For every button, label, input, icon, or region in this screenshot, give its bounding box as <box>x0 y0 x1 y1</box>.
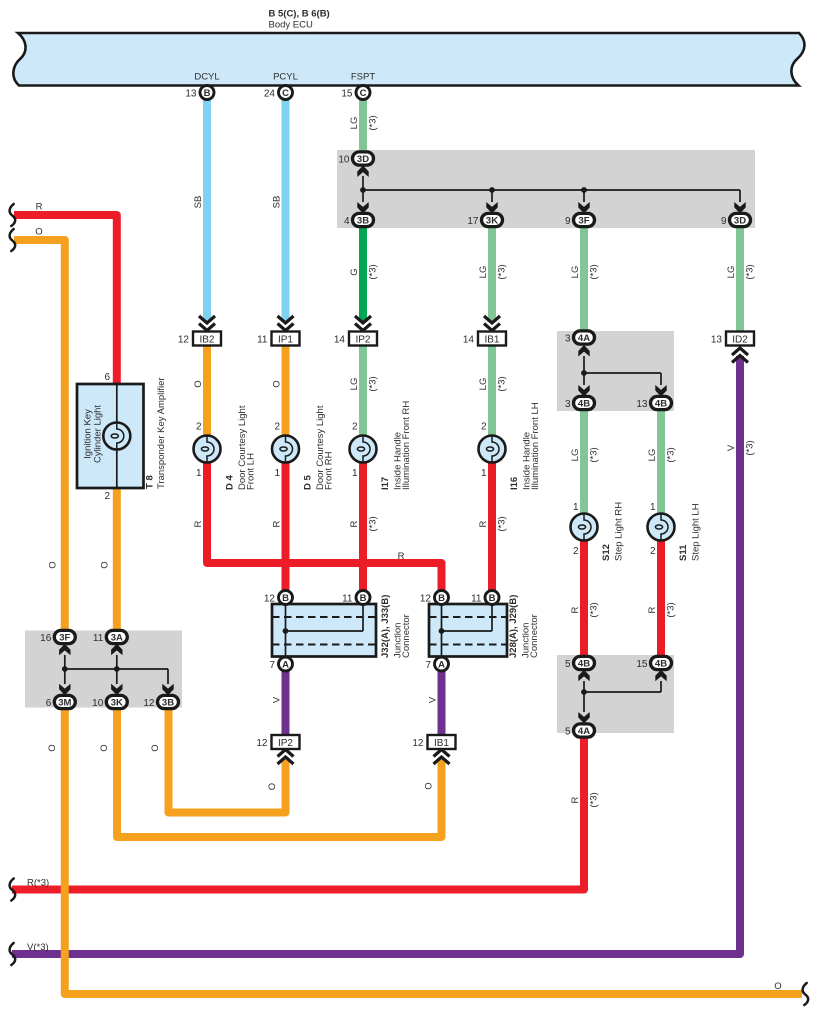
svg-text:12: 12 <box>412 738 424 749</box>
wire J32 internal 12B-7A <box>285 604 287 657</box>
svg-text:(*3): (*3) <box>368 264 379 279</box>
connector pin 15 4B <box>636 656 671 670</box>
svg-text:1: 1 <box>573 502 579 513</box>
svg-text:(*3): (*3) <box>497 516 508 531</box>
svg-text:LG: LG <box>349 378 360 391</box>
svg-text:2: 2 <box>650 546 656 557</box>
wire O T8 pin2 to 3A <box>113 488 121 631</box>
wire O 3K to IB1 lower <box>117 708 442 838</box>
svg-text:DCYL: DCYL <box>194 72 219 83</box>
wire LG IB1 to I16 <box>488 345 496 436</box>
svg-text:IB2: IB2 <box>199 334 214 345</box>
svg-text:1: 1 <box>650 502 656 513</box>
arrow into 9-3D <box>734 202 745 214</box>
svg-text:(*3): (*3) <box>589 447 600 462</box>
wire O feed to 3F <box>14 240 65 631</box>
svg-text:Step Light LH: Step Light LH <box>691 503 702 561</box>
svg-text:4A: 4A <box>578 333 590 344</box>
svg-text:O: O <box>48 561 59 568</box>
wire band2 vertical 4A <box>583 356 585 385</box>
wire J28 internal 11B drop <box>491 604 493 631</box>
svg-text:9: 9 <box>721 216 727 227</box>
svg-text:LG: LG <box>647 449 658 462</box>
svg-text:IP2: IP2 <box>355 334 370 345</box>
svg-text:4B: 4B <box>655 399 667 410</box>
svg-text:V: V <box>726 444 737 451</box>
svg-text:C: C <box>282 88 289 99</box>
svg-text:A: A <box>438 660 445 671</box>
wire band4 vertical 3A-3K <box>116 655 118 684</box>
arrow into IB1 lower <box>434 750 450 765</box>
svg-text:3A: 3A <box>111 633 123 644</box>
node band2 junction <box>581 370 587 376</box>
wire J28 internal 12B-7A <box>441 604 443 657</box>
svg-text:R: R <box>570 796 581 803</box>
svg-text:O: O <box>424 782 435 789</box>
node band3 junction <box>581 689 587 695</box>
wire O IB2 to D4 <box>203 345 211 436</box>
connector pin 10 3D <box>338 152 373 166</box>
svg-text:O: O <box>193 380 204 387</box>
wire R I17 to J32 11B <box>359 462 367 591</box>
arrow into 16-3F <box>59 644 70 656</box>
wire SB PCYL to IP1 <box>282 99 290 322</box>
junction connector J32/J33 box <box>272 604 376 657</box>
pin 24 C PCYL <box>264 86 293 100</box>
svg-text:(*3): (*3) <box>745 264 756 279</box>
connector pin 10 3K <box>92 695 127 709</box>
svg-text:11: 11 <box>257 335 268 346</box>
wire band3 riser 15-4B <box>660 681 662 692</box>
arrow into 4-3B <box>357 202 368 214</box>
svg-text:B: B <box>204 88 211 99</box>
svg-text:(*3): (*3) <box>589 602 600 617</box>
svg-text:B: B <box>438 593 445 604</box>
svg-text:C: C <box>360 88 367 99</box>
svg-text:R(*3): R(*3) <box>27 878 49 889</box>
wire band3 vertical 4B-4A <box>583 681 585 712</box>
svg-text:24: 24 <box>264 88 276 99</box>
svg-text:(*3): (*3) <box>497 264 508 279</box>
wire LG IP2 to I17 <box>359 345 367 436</box>
pin J28 7 A <box>425 657 448 671</box>
svg-text:(*3): (*3) <box>666 447 677 462</box>
arrow into 10-3D <box>357 166 368 178</box>
svg-text:(*3): (*3) <box>745 440 756 455</box>
svg-text:12: 12 <box>264 593 276 604</box>
svg-text:PCYL: PCYL <box>273 72 298 83</box>
svg-text:LG: LG <box>726 266 737 279</box>
svg-text:1: 1 <box>274 468 280 479</box>
node band1 junction A <box>360 187 366 193</box>
svg-text:Connector: Connector <box>529 614 540 658</box>
svg-text:D 4: D 4 <box>224 475 235 491</box>
svg-text:Illumination Front LH: Illumination Front LH <box>530 402 541 490</box>
wire break O feed <box>10 229 16 251</box>
wire R(*3) bottom run <box>12 737 584 890</box>
svg-text:Step Light RH: Step Light RH <box>614 502 625 561</box>
wire LG 3K to IB1 <box>488 226 496 322</box>
pin 13 B DCYL <box>185 86 214 100</box>
svg-text:4B: 4B <box>578 659 590 670</box>
wire band4 drop 3B <box>167 669 169 684</box>
svg-text:R: R <box>398 551 405 562</box>
wire R I16 to J28 11B <box>488 462 496 591</box>
connector 12 IB1 lower <box>412 735 455 749</box>
svg-text:1: 1 <box>352 468 358 479</box>
wire V(*3) ID2 bottom run <box>12 356 740 954</box>
svg-text:12: 12 <box>420 593 432 604</box>
connector pin 3 4B <box>565 396 595 410</box>
svg-text:FSPT: FSPT <box>351 72 375 83</box>
svg-text:Front LH: Front LH <box>245 453 256 490</box>
svg-text:3M: 3M <box>58 698 71 709</box>
svg-text:4B: 4B <box>655 659 667 670</box>
connector 13 ID2 <box>711 332 754 346</box>
svg-text:R: R <box>349 520 360 527</box>
svg-text:IP1: IP1 <box>278 334 293 345</box>
node band4 junction B <box>114 666 120 672</box>
connector 12 IB2 <box>178 332 221 346</box>
wire O 3M bottom run <box>65 708 802 995</box>
connector pin 16 3F <box>40 630 75 644</box>
svg-text:15: 15 <box>636 659 648 670</box>
svg-text:3: 3 <box>565 333 571 344</box>
svg-text:15: 15 <box>341 88 353 99</box>
svg-text:LG: LG <box>570 266 581 279</box>
svg-text:5: 5 <box>565 726 571 737</box>
connector 14 IP2 <box>334 332 377 346</box>
svg-text:V: V <box>272 696 283 703</box>
node band4 junction A <box>62 666 68 672</box>
svg-text:12: 12 <box>256 738 268 749</box>
svg-text:(*3): (*3) <box>368 376 379 391</box>
svg-text:G: G <box>349 268 360 275</box>
amplifier T8 box <box>77 384 144 488</box>
svg-text:SB: SB <box>193 196 204 209</box>
wire J32 internal 11B drop <box>362 604 364 631</box>
arrow into 5-4A <box>578 712 589 724</box>
svg-text:B 5(C), B 6(B): B 5(C), B 6(B) <box>269 9 330 20</box>
wire O 3B to IP2 lower <box>169 708 286 813</box>
svg-text:1: 1 <box>196 468 202 479</box>
svg-text:10: 10 <box>338 154 350 165</box>
svg-text:R: R <box>193 520 204 527</box>
svg-text:V(*3): V(*3) <box>27 942 49 953</box>
svg-text:10: 10 <box>92 698 104 709</box>
connector 14 IB1 <box>463 332 506 346</box>
wire R D5 to J32 12B <box>282 462 290 591</box>
arrow into 17-3K <box>486 202 497 214</box>
wire O IP1 to D5 <box>282 345 290 436</box>
svg-text:11: 11 <box>471 593 482 604</box>
svg-text:3D: 3D <box>734 216 746 227</box>
arrow into 9-3F <box>578 202 589 214</box>
svg-text:A: A <box>282 660 289 671</box>
svg-text:2: 2 <box>274 422 280 433</box>
svg-text:R: R <box>272 520 283 527</box>
svg-text:3B: 3B <box>357 216 369 227</box>
connector pin 12 3B <box>143 695 178 709</box>
connector 11 IP1 <box>257 332 299 346</box>
pin J28 11 B <box>471 591 499 605</box>
arrow into 3-4B <box>578 385 589 397</box>
svg-text:Body ECU: Body ECU <box>269 20 313 31</box>
pin 15 C FSPT <box>341 86 370 100</box>
svg-text:R: R <box>478 520 489 527</box>
node J32 internal junction <box>283 628 289 634</box>
svg-text:SB: SB <box>272 196 283 209</box>
svg-text:2: 2 <box>481 422 487 433</box>
wire V J28 7A to IB1 <box>438 664 446 735</box>
svg-text:6: 6 <box>46 698 52 709</box>
ECU B5/B6 Body ECU block <box>13 33 804 86</box>
connector 12 IP2 lower <box>256 735 299 749</box>
connector pin 6 3M <box>46 695 76 709</box>
svg-text:O: O <box>267 783 278 790</box>
connector pin 4 3B <box>344 213 374 227</box>
svg-text:13: 13 <box>185 88 197 99</box>
arrow into IB1 <box>484 316 500 331</box>
connector pin 17 3K <box>467 213 502 227</box>
svg-text:13: 13 <box>711 335 723 346</box>
arrow into 13-4B <box>655 385 666 397</box>
svg-text:3K: 3K <box>111 698 123 709</box>
svg-text:O: O <box>99 744 110 751</box>
svg-text:LG: LG <box>478 266 489 279</box>
shield band 3F/3A/3M/3K/3B <box>25 631 182 708</box>
svg-text:I16: I16 <box>509 477 520 490</box>
wire band1 drop 3F <box>583 190 585 202</box>
connector pin 3 4A <box>565 331 595 345</box>
svg-text:3K: 3K <box>486 216 498 227</box>
svg-text:14: 14 <box>463 335 475 346</box>
wire LG FSPT to 3D <box>359 99 367 153</box>
svg-text:(*3): (*3) <box>497 376 508 391</box>
svg-text:J32(A), J33(B): J32(A), J33(B) <box>380 595 391 658</box>
wire band3 horizontal <box>584 691 661 693</box>
wire break O out right <box>803 983 809 1005</box>
svg-text:(*3): (*3) <box>368 516 379 531</box>
wire band1 vertical at 3D <box>362 176 364 202</box>
svg-text:S12: S12 <box>601 544 612 561</box>
wire LG 3F to 4A <box>580 226 588 332</box>
svg-text:6: 6 <box>104 372 110 383</box>
arrow into 10-3K <box>111 684 122 696</box>
wire band1 drop 3D <box>739 190 741 202</box>
wire band2 drop 13-4B <box>660 373 662 385</box>
svg-text:7: 7 <box>425 660 431 671</box>
wire T8 internal <box>116 384 118 488</box>
shield band 3D/3B/3K/3F <box>337 150 755 228</box>
arrow into 15-4B <box>655 670 666 682</box>
svg-text:B: B <box>360 593 367 604</box>
svg-text:17: 17 <box>467 216 479 227</box>
connector pin 5 4B <box>565 656 595 670</box>
wire G 3B to IP2 <box>359 226 367 322</box>
connector pin 11 3A <box>93 630 127 644</box>
arrow into 3-4A <box>578 345 589 357</box>
wire R S12 to 5 4B <box>580 540 588 657</box>
svg-text:4: 4 <box>344 216 350 227</box>
arrow into IP2 <box>355 316 371 331</box>
svg-text:3F: 3F <box>578 216 589 227</box>
svg-text:R: R <box>570 606 581 613</box>
svg-text:O: O <box>774 981 781 992</box>
wire band4 horizontal <box>65 668 168 670</box>
svg-text:7: 7 <box>269 660 275 671</box>
lamp D4 door courtesy light front LH <box>194 436 221 463</box>
wire break V(*3) feed <box>10 943 16 965</box>
pin J32 12 B <box>264 591 293 605</box>
wire LG 3D to ID2 <box>736 226 744 332</box>
lamp D5 door courtesy light front RH <box>272 436 299 463</box>
svg-text:2: 2 <box>352 422 358 433</box>
arrow into 6-3M <box>59 684 70 696</box>
pin J28 12 B <box>420 591 449 605</box>
wire LG 4B to S11 <box>657 409 665 514</box>
arrow into IP1 <box>278 316 294 331</box>
connector pin 9 3D <box>721 213 751 227</box>
svg-text:9: 9 <box>565 216 571 227</box>
wire band2 horizontal <box>584 372 661 374</box>
connector pin 9 3F <box>565 213 595 227</box>
pin J32 7 A <box>269 657 292 671</box>
svg-text:LG: LG <box>349 117 360 130</box>
wire break R(*3) feed <box>10 879 16 901</box>
svg-text:D 5: D 5 <box>302 475 313 491</box>
svg-text:12: 12 <box>178 335 190 346</box>
svg-text:IB1: IB1 <box>484 334 499 345</box>
svg-text:O: O <box>272 380 283 387</box>
svg-text:2: 2 <box>573 546 579 557</box>
lamp ignition key cylinder light <box>103 423 130 450</box>
svg-text:3B: 3B <box>162 698 174 709</box>
wire J28 internal link <box>442 630 493 632</box>
svg-text:B: B <box>489 593 496 604</box>
svg-text:Illumination Front RH: Illumination Front RH <box>401 401 412 490</box>
connector pin 5 4A <box>565 724 595 738</box>
svg-text:Transponder Key Amplifier: Transponder Key Amplifier <box>156 377 167 489</box>
node band1 junction C <box>581 187 587 193</box>
svg-text:11: 11 <box>93 633 104 644</box>
svg-text:S11: S11 <box>678 544 689 561</box>
wire R feed to T8 pin6 <box>14 215 117 384</box>
arrow into 5-4B <box>578 670 589 682</box>
wire J32 internal link <box>286 630 364 632</box>
svg-text:2: 2 <box>196 422 202 433</box>
svg-text:R: R <box>647 606 658 613</box>
wire SB DCYL to IB2 <box>203 99 211 322</box>
wire band1 horizontal <box>363 189 740 191</box>
wire V J32 7A to IP2 <box>282 664 290 735</box>
svg-text:16: 16 <box>40 633 52 644</box>
svg-text:1: 1 <box>481 468 487 479</box>
svg-text:B: B <box>282 593 289 604</box>
arrow into 12-3B <box>162 684 173 696</box>
svg-text:13: 13 <box>636 399 648 410</box>
svg-text:LG: LG <box>478 378 489 391</box>
wire LG 4B to S12 <box>580 409 588 514</box>
svg-text:3F: 3F <box>59 633 70 644</box>
svg-text:R: R <box>36 202 43 213</box>
svg-text:2: 2 <box>104 491 110 502</box>
connector pin 13 4B <box>636 396 671 410</box>
shield band 4A/4B upper <box>557 331 674 411</box>
arrow into IB2 <box>199 316 215 331</box>
svg-text:(*3): (*3) <box>589 264 600 279</box>
svg-text:(*3): (*3) <box>589 792 600 807</box>
svg-text:5: 5 <box>565 659 571 670</box>
arrow into ID2 <box>732 348 748 363</box>
svg-text:O: O <box>100 561 111 568</box>
svg-text:(*3): (*3) <box>666 602 677 617</box>
svg-text:O: O <box>150 744 161 751</box>
svg-text:12: 12 <box>143 698 155 709</box>
svg-text:ID2: ID2 <box>732 334 748 345</box>
arrow into 11-3A <box>111 644 122 656</box>
svg-text:IP2: IP2 <box>278 738 293 749</box>
svg-text:3: 3 <box>565 399 571 410</box>
wire band1 drop 3K <box>491 190 493 202</box>
lamp S12 step light RH <box>571 514 598 541</box>
wire R D4 bus to J28 <box>207 462 442 591</box>
lamp S11 step light LH <box>648 514 675 541</box>
wire band4 vertical 3F-3M <box>64 655 66 684</box>
svg-text:IB1: IB1 <box>434 738 449 749</box>
svg-text:3D: 3D <box>357 154 369 165</box>
svg-text:Connector: Connector <box>401 614 412 658</box>
wire break R feed <box>10 204 16 226</box>
svg-text:(*3): (*3) <box>368 115 379 130</box>
svg-text:4A: 4A <box>578 726 590 737</box>
node band1 junction B <box>489 187 495 193</box>
node J28 internal junction <box>439 628 445 634</box>
svg-text:LG: LG <box>570 449 581 462</box>
arrow into IP2 lower <box>278 750 294 765</box>
lamp I16 inside handle illumination front LH <box>479 436 506 463</box>
svg-text:Front RH: Front RH <box>323 451 334 490</box>
svg-text:T 8: T 8 <box>145 475 156 489</box>
lamp I17 inside handle illumination front RH <box>350 436 377 463</box>
svg-text:4B: 4B <box>578 399 590 410</box>
svg-text:Cylinder Light: Cylinder Light <box>93 405 104 463</box>
svg-text:O: O <box>47 744 58 751</box>
svg-text:14: 14 <box>334 335 346 346</box>
shield band 4B/4A lower <box>557 655 674 733</box>
wire R S11 to 15 4B <box>657 540 665 657</box>
svg-text:O: O <box>35 227 42 238</box>
pin J32 11 B <box>342 591 370 605</box>
svg-text:J28(A), J29(B): J28(A), J29(B) <box>508 595 519 658</box>
junction connector J28/J29 box <box>429 604 507 657</box>
svg-text:I17: I17 <box>380 477 391 490</box>
svg-text:V: V <box>428 696 439 703</box>
svg-text:11: 11 <box>342 593 353 604</box>
